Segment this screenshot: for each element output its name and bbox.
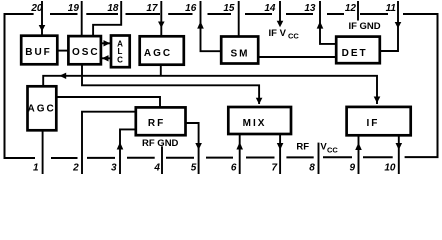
pin 13 lead and wire to DET	[320, 1, 336, 44]
svg-text:IF V: IF V	[269, 28, 287, 39]
wire ALC to OSC (bottom)	[101, 57, 111, 59]
arrow down on pin 11	[395, 22, 402, 28]
svg-text:RF GND: RF GND	[142, 138, 179, 149]
package outline bottom dashed edge	[4, 156, 439, 159]
pin number 1	[33, 163, 39, 174]
label ALC vertical	[117, 40, 123, 65]
pin number 15	[223, 3, 235, 14]
svg-text:GND: GND	[360, 21, 381, 32]
wire AGC feedback line to RF AGC and IF	[43, 76, 377, 104]
pin 20 lead	[41, 1, 43, 36]
svg-text:14: 14	[264, 3, 276, 14]
pin number 16	[185, 3, 197, 14]
svg-text:10: 10	[384, 163, 396, 174]
svg-text:8: 8	[309, 163, 315, 174]
svg-text:20: 20	[30, 3, 43, 14]
package outline right border	[437, 14, 439, 158]
label DET	[342, 48, 368, 59]
svg-text:19: 19	[68, 3, 80, 14]
label MIX	[243, 118, 267, 129]
svg-text:CC: CC	[327, 145, 338, 154]
arrow down on pin 10	[396, 143, 403, 150]
svg-text:IF: IF	[349, 21, 358, 32]
block IF	[347, 107, 411, 135]
label OSC	[72, 47, 100, 58]
label SM	[231, 48, 250, 59]
package outline top dashed edge	[4, 13, 439, 15]
svg-text:17: 17	[146, 3, 158, 14]
pin number 20	[30, 3, 43, 14]
net label IF VCC (pin 14)	[269, 28, 300, 41]
pin 16 lead and wire to SM	[201, 1, 222, 51]
pin number 10	[384, 163, 396, 174]
svg-text:1: 1	[33, 163, 39, 174]
arrow right OSC to ALC	[104, 40, 111, 46]
arrow down into IF top	[374, 97, 381, 104]
arrow left on AGC feedback line	[59, 73, 66, 79]
svg-text:12: 12	[345, 3, 357, 14]
wire OSC to MIX	[82, 64, 259, 104]
pin 5 lead from RF right	[186, 123, 199, 174]
block AGC (IF AGC)	[140, 36, 184, 64]
label AGC (RF AGC)	[27, 104, 55, 115]
svg-text:MIX: MIX	[243, 118, 267, 129]
svg-text:RF: RF	[296, 142, 309, 153]
wire RF AGC to RF top	[56, 97, 160, 107]
svg-text:4: 4	[153, 163, 160, 174]
svg-text:16: 16	[185, 3, 197, 14]
block AGC (RF AGC)	[28, 86, 57, 130]
pin 12 lead stub	[357, 1, 359, 21]
arrow up on pin 6	[236, 142, 243, 149]
arrow down on pin 20	[39, 25, 46, 31]
pin number 2	[72, 163, 79, 174]
pin number 5	[191, 163, 197, 174]
package outline left border	[4, 14, 6, 159]
pin 7 lead	[279, 134, 281, 174]
pin number 19	[68, 3, 80, 14]
wire SM to DET	[258, 56, 336, 58]
pin 4 lead stub	[161, 146, 163, 174]
svg-text:C: C	[117, 56, 123, 65]
pin 6 lead	[239, 134, 241, 174]
svg-text:7: 7	[271, 163, 277, 174]
pin 18 lead and bend into OSC	[93, 1, 121, 36]
wire BUF to OSC	[57, 50, 68, 52]
svg-text:9: 9	[349, 163, 355, 174]
pin 17 lead	[160, 1, 162, 36]
arrow down on pin 14	[277, 21, 284, 27]
pin number 18	[107, 3, 119, 14]
label IF	[366, 118, 379, 129]
wire OSC to ALC (top)	[101, 42, 111, 44]
svg-text:18: 18	[107, 3, 119, 14]
pin number 3	[111, 163, 117, 174]
pin number 4	[153, 163, 160, 174]
pin 14 lead stub	[279, 1, 281, 22]
block DET	[336, 37, 380, 64]
pin number 13	[304, 3, 316, 14]
pin 8 lead stub	[318, 143, 320, 174]
block MIX	[228, 107, 291, 134]
pin number 8	[309, 163, 315, 174]
block OSC	[68, 36, 101, 64]
label RF	[148, 118, 165, 129]
svg-text:5: 5	[191, 163, 197, 174]
arrow down on pin 17	[158, 22, 165, 28]
arrow down on pin 7	[277, 143, 284, 150]
svg-text:IF: IF	[366, 118, 379, 129]
net label RF GND (pin 4)	[142, 138, 179, 149]
pin 10 lead	[398, 135, 400, 174]
svg-text:2: 2	[72, 163, 79, 174]
arrow up on pin 9	[355, 143, 362, 150]
net label RF VCC (pin 8)	[296, 142, 338, 155]
arrow up on pin 13	[317, 21, 324, 28]
svg-text:11: 11	[386, 3, 397, 14]
pin 11 lead and wire to DET right	[380, 1, 398, 51]
svg-text:15: 15	[223, 3, 235, 14]
arrow down into MIX top	[256, 98, 263, 105]
pin number 17	[146, 3, 158, 14]
arrow left ALC to OSC	[102, 55, 109, 61]
svg-text:OSC: OSC	[72, 47, 100, 58]
block RF	[136, 107, 186, 135]
pin 2 lead and wire to RF left	[82, 112, 136, 174]
pin 15 lead	[238, 1, 240, 37]
svg-text:RF: RF	[148, 118, 165, 129]
svg-text:CC: CC	[288, 31, 299, 40]
net label IF GND (pin 12)	[349, 21, 381, 32]
svg-text:SM: SM	[231, 48, 250, 59]
block BUF	[21, 36, 57, 65]
svg-text:AGC: AGC	[27, 104, 55, 115]
wire AGC bottom stub	[160, 65, 162, 76]
pin number 6	[231, 163, 237, 174]
label AGC (IF AGC)	[144, 48, 172, 59]
svg-text:13: 13	[304, 3, 316, 14]
pin 3 lead and wire to RF left	[120, 129, 136, 174]
pin number 9	[349, 163, 355, 174]
svg-text:AGC: AGC	[144, 48, 172, 59]
pin number 11	[386, 3, 397, 14]
pin number 7	[271, 163, 277, 174]
svg-text:BUF: BUF	[25, 47, 52, 58]
pin 1 lead from AGC bottom	[42, 130, 44, 174]
arrow up on pin 3	[117, 142, 124, 149]
pin number 14	[264, 3, 276, 14]
block SM	[221, 37, 258, 64]
arrow up on pin 16	[197, 21, 204, 28]
arrow down on pin 5	[195, 143, 202, 150]
pin number 12	[345, 3, 357, 14]
pin 19 lead	[81, 1, 83, 36]
svg-text:3: 3	[111, 163, 117, 174]
svg-text:DET: DET	[342, 48, 368, 59]
pin 9 lead	[358, 135, 360, 174]
svg-text:6: 6	[231, 163, 237, 174]
label BUF	[25, 47, 52, 58]
block ALC	[111, 36, 130, 68]
